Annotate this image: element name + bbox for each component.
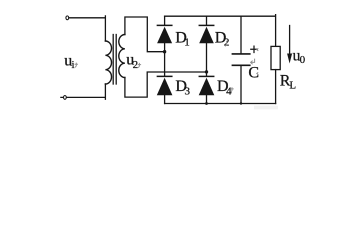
svg-text:L: L [289, 80, 296, 92]
svg-text:2: 2 [133, 59, 139, 71]
svg-text:i: i [72, 59, 75, 71]
svg-text:0: 0 [300, 54, 306, 66]
svg-text:3: 3 [185, 85, 191, 97]
svg-text:1: 1 [184, 36, 190, 48]
